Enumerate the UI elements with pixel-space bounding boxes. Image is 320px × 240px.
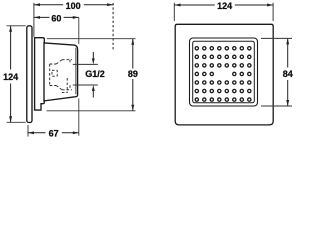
dimension 67: arrows	[28, 131, 79, 134]
spray face inner rim line	[75, 48, 77, 94]
svg-text:G1/2: G1/2	[85, 69, 105, 79]
dimension 60: arrows	[34, 16, 79, 19]
dimension 60: line	[34, 16, 79, 18]
svg-text:60: 60	[51, 13, 61, 23]
dimension 89: line	[132, 39, 134, 111]
svg-text:89: 89	[128, 69, 138, 79]
svg-text:100: 100	[66, 1, 81, 11]
G1/2 dimension: lines and outside arrows	[92, 52, 94, 98]
svg-text:124: 124	[217, 1, 232, 11]
spray head body (side view)	[44, 43, 78, 101]
hidden G1/2 inlet (dashed)	[50, 60, 72, 93]
dimension 124 top: arrows	[175, 4, 274, 7]
front view outer square	[175, 24, 273, 125]
dimension 100: arrows	[34, 3, 113, 6]
dimension 89: arrows	[131, 39, 134, 111]
dimension 124 top: line	[175, 4, 274, 6]
dimension 100: dashed projection line	[112, 3, 114, 50]
dimension 89: extension lines	[47, 39, 136, 111]
front view spray face outer line	[190, 38, 258, 106]
dimension 100: extension line (wall plane)	[33, 3, 35, 37]
svg-text:67: 67	[49, 129, 59, 139]
dimension 124 left: line	[10, 26, 12, 123]
G1/2 dimension: extension lines	[73, 64, 98, 85]
body back plate (side view)	[35, 38, 45, 110]
front view spray face inner line	[193, 41, 255, 103]
flange plate (side view)	[27, 26, 32, 123]
dimension 84: arrows	[286, 38, 289, 106]
nozzle dots (54)	[195, 47, 251, 102]
dimension 124 left: extension lines	[7, 26, 26, 123]
dimension 84: extension lines	[261, 38, 292, 106]
extension line at spray face (for 60/67)	[78, 17, 80, 135]
dimension 67: line	[28, 132, 79, 134]
dimension 84: line	[287, 38, 289, 106]
dimension 124 top (front view): extension lines	[174, 3, 273, 21]
dimension 124 left: arrows	[9, 26, 12, 123]
svg-text:84: 84	[283, 69, 293, 79]
dimension 100: line	[34, 4, 113, 6]
dimension 67: left extension	[27, 125, 29, 137]
svg-text:124: 124	[3, 72, 18, 82]
